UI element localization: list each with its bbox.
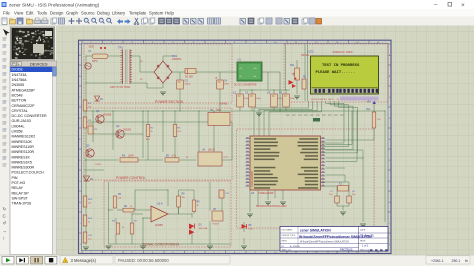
svg-text:SIGNAL CONDITIONING: SIGNAL CONDITIONING xyxy=(142,242,180,246)
svg-text:MINRES110R: MINRES110R xyxy=(12,145,35,149)
svg-text:MINRES1K5: MINRES1K5 xyxy=(12,160,32,164)
svg-text:1k: 1k xyxy=(88,222,90,224)
svg-text:CRYSTAL: CRYSTAL xyxy=(12,109,28,113)
svg-text:10u: 10u xyxy=(88,239,91,241)
svg-text:1N4756A: 1N4756A xyxy=(12,78,28,82)
svg-text:Edit: Edit xyxy=(26,10,34,15)
svg-text:3 Message(s): 3 Message(s) xyxy=(71,258,97,263)
svg-text:Design: Design xyxy=(50,10,64,15)
svg-text:J: J xyxy=(79,244,80,246)
svg-text:1N5408: 1N5408 xyxy=(219,104,228,106)
svg-text:SW-SPST: SW-SPST xyxy=(12,196,29,200)
svg-text:DEVICES: DEVICES xyxy=(30,61,48,66)
svg-text:BC548: BC548 xyxy=(12,93,23,97)
svg-text:zener SIMU - ISIS Professional: zener SIMU - ISIS Professional (Animatin… xyxy=(9,2,100,7)
svg-text:BY:: BY: xyxy=(282,246,286,248)
svg-text:TRAN-2P3S: TRAN-2P3S xyxy=(12,202,32,206)
svg-text:Graph: Graph xyxy=(66,10,79,15)
svg-text:DATE:: DATE: xyxy=(360,229,366,232)
svg-text:REV: 1.0: REV: 1.0 xyxy=(282,250,291,252)
svg-text:100n: 100n xyxy=(88,124,92,126)
svg-text:TIP41: TIP41 xyxy=(95,164,102,166)
svg-text:21-Jan-21: 21-Jan-21 xyxy=(360,234,374,238)
svg-text:+Vi: +Vi xyxy=(239,68,243,70)
svg-text:BUTTON: BUTTON xyxy=(12,99,27,103)
svg-text:1 of 1: 1 of 1 xyxy=(362,244,369,248)
svg-text:PROTEUS: PROTEUS xyxy=(340,248,353,252)
svg-text:CERAMIC22P: CERAMIC22P xyxy=(12,104,36,108)
svg-text:PATH:: PATH: xyxy=(282,240,288,243)
svg-text:W:\book\ZenerEFF\circuit\zener: W:\book\ZenerEFF\circuit\zener SIMULATIO… xyxy=(300,241,349,244)
svg-text:G: G xyxy=(79,181,81,183)
svg-text:RELAY: RELAY xyxy=(12,186,24,190)
svg-text:th: th xyxy=(465,259,468,263)
svg-text:RELAY:SP: RELAY:SP xyxy=(12,191,30,195)
svg-text:ADJ: ADJ xyxy=(146,138,150,141)
svg-text:R1 10R: R1 10R xyxy=(185,77,193,79)
svg-text:↺: ↺ xyxy=(3,220,7,225)
svg-text:File: File xyxy=(3,10,11,15)
svg-text:TEST IN PROGRESS: TEST IN PROGRESS xyxy=(322,64,360,68)
svg-text:LM044L: LM044L xyxy=(12,124,25,128)
svg-text:LM044L: LM044L xyxy=(301,55,310,57)
svg-text:100n: 100n xyxy=(256,98,262,100)
svg-text:↕: ↕ xyxy=(3,235,5,240)
svg-text:100n: 100n xyxy=(290,98,296,100)
svg-text:250.1: 250.1 xyxy=(452,259,461,263)
svg-text:LM358: LM358 xyxy=(12,130,23,134)
svg-text:DC-DC CONVERTER: DC-DC CONVERTER xyxy=(234,85,257,87)
svg-text:↻: ↻ xyxy=(3,206,7,211)
svg-text:1N4733A: 1N4733A xyxy=(12,73,28,77)
svg-text:1N4734A: 1N4734A xyxy=(199,227,208,230)
svg-text:MANRES12K2: MANRES12K2 xyxy=(12,135,36,139)
svg-text:GUR-JA103: GUR-JA103 xyxy=(12,119,31,123)
svg-text:U1: U1 xyxy=(238,58,242,62)
svg-text:zener SIMULATION: zener SIMULATION xyxy=(300,229,331,233)
svg-text:10k: 10k xyxy=(88,203,91,205)
svg-text:LED: LED xyxy=(249,228,254,230)
svg-text:×: × xyxy=(461,2,465,9)
svg-text:7812: 7812 xyxy=(216,110,222,112)
svg-text:230V TO 9V TRAN: 230V TO 9V TRAN xyxy=(110,86,130,89)
svg-text:DISPLAY UNIT: DISPLAY UNIT xyxy=(333,50,353,54)
svg-text:Debug: Debug xyxy=(97,10,110,15)
svg-text:+2061.1: +2061.1 xyxy=(431,259,444,263)
svg-text:PAUSED: 00:00:56.500000: PAUSED: 00:00:56.500000 xyxy=(118,258,169,263)
svg-text:230V: 230V xyxy=(89,46,95,49)
svg-text:DESIGN TITLE:: DESIGN TITLE: xyxy=(282,235,297,237)
svg-text:LM358: LM358 xyxy=(155,224,163,227)
svg-text:PIN: PIN xyxy=(12,176,18,180)
svg-text:+5V: +5V xyxy=(367,101,372,104)
svg-text:G: G xyxy=(389,181,391,183)
svg-text:PC817: PC817 xyxy=(213,224,220,226)
svg-text:Library: Library xyxy=(112,10,126,15)
svg-text:TR1: TR1 xyxy=(118,46,123,50)
svg-text:LCD1: LCD1 xyxy=(307,49,314,53)
svg-text:PAGE:: PAGE: xyxy=(360,240,366,243)
svg-text:DIODE: DIODE xyxy=(12,68,24,72)
svg-text:POWER CONTROL: POWER CONTROL xyxy=(116,176,146,180)
svg-text:U3:A: U3:A xyxy=(157,203,163,206)
svg-text:50Hz: 50Hz xyxy=(92,60,98,63)
svg-text:D0: D0 xyxy=(337,99,339,101)
svg-text:POWER SECTION: POWER SECTION xyxy=(155,100,184,104)
svg-text:PCELECT.COLKCH: PCELECT.COLKCH xyxy=(12,171,45,175)
svg-text:FILE NAME:: FILE NAME: xyxy=(282,229,294,232)
svg-text:PLEASE WAIT......: PLEASE WAIT...... xyxy=(316,71,356,75)
svg-text:System: System xyxy=(149,10,164,15)
svg-text:ATMEGA328P: ATMEGA328P xyxy=(258,192,274,195)
svg-text:Help: Help xyxy=(165,10,174,15)
svg-text:DC-DC CONVERTER: DC-DC CONVERTER xyxy=(12,114,47,118)
svg-text:2200u: 2200u xyxy=(185,84,192,86)
svg-text:L: L xyxy=(18,62,20,66)
svg-text:2N3055: 2N3055 xyxy=(123,130,132,132)
svg-text:RV1: RV1 xyxy=(290,65,295,67)
svg-text:MINRES300R: MINRES300R xyxy=(12,166,35,170)
svg-text:Source: Source xyxy=(81,10,95,15)
svg-text:MINRES10K: MINRES10K xyxy=(12,140,33,144)
svg-text:J: J xyxy=(389,244,390,246)
svg-text:RW: RW xyxy=(328,99,331,101)
svg-text:10k: 10k xyxy=(88,107,91,109)
svg-text:ATMEGA328P: ATMEGA328P xyxy=(12,88,36,92)
svg-text:POT-HG: POT-HG xyxy=(12,181,26,185)
svg-text:↔: ↔ xyxy=(3,228,8,233)
svg-text:ATMEGA328P: ATMEGA328P xyxy=(251,170,254,187)
svg-text:100n: 100n xyxy=(224,84,230,86)
svg-text:A. SINGH: A. SINGH xyxy=(290,245,300,248)
svg-text:100R: 100R xyxy=(128,156,134,158)
svg-text:2W005G: 2W005G xyxy=(172,58,182,61)
svg-text:Template: Template xyxy=(129,10,147,15)
svg-text:MJ2955: MJ2955 xyxy=(103,115,112,117)
svg-text:Tools: Tools xyxy=(37,10,47,15)
svg-text:MICROCONTROLLER: MICROCONTROLLER xyxy=(256,204,287,208)
svg-text:MINRES1K: MINRES1K xyxy=(12,155,31,159)
svg-text:2N3055: 2N3055 xyxy=(12,83,25,87)
svg-text:SIM: 0.0.0.0: SIM: 0.0.0.0 xyxy=(360,250,372,252)
svg-text:LM317: LM317 xyxy=(208,150,216,152)
svg-text:MINRES120R: MINRES120R xyxy=(12,150,35,154)
svg-text:View: View xyxy=(14,10,24,15)
